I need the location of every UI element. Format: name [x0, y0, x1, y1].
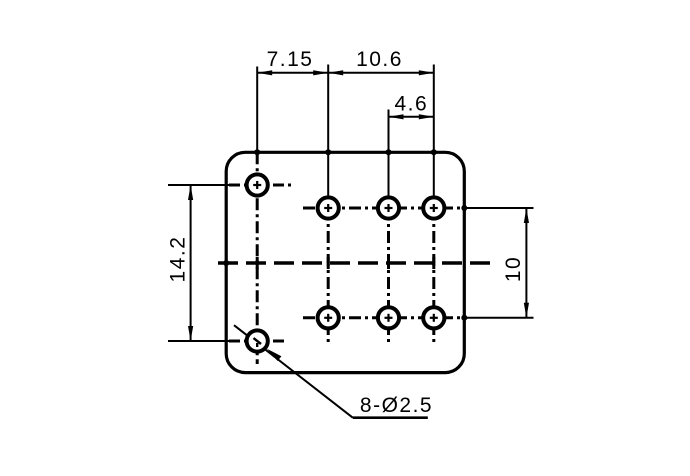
center mark hole P2 — [385, 204, 393, 212]
centerline vertical through mounting holes (x=257) — [256, 67, 258, 153]
junction dot right edge y=208 — [461, 205, 467, 211]
arrow 10.6 left — [328, 70, 343, 75]
junction cross mid-line x=257 — [256, 257, 259, 269]
extension line column x=388.5 (4.6 left) — [388, 110, 390, 209]
center mark hole P3 — [430, 204, 438, 212]
leader underline 8-2.5 — [353, 416, 428, 419]
body outline rounded rectangle — [226, 152, 464, 372]
junction dot right edge y=317.8 — [461, 315, 467, 321]
extension line right y=317.8 (10 bottom) — [464, 317, 533, 319]
dimension line 7.15 — [257, 72, 328, 74]
extension line left y=341 (14.2 bottom) — [168, 340, 229, 342]
arrow 7.15 right — [313, 70, 328, 75]
svg-text:10: 10 — [502, 256, 525, 282]
arrow 4.6 left — [389, 114, 404, 119]
pin hole P5 — [378, 307, 399, 328]
hidden centerline dashed mid body (y=263) — [218, 261, 490, 264]
leader arrow at hole H2 — [267, 349, 282, 361]
dimension line 14.2 — [190, 185, 192, 341]
svg-text:4.6: 4.6 — [394, 93, 428, 116]
svg-text:14.2: 14.2 — [167, 236, 190, 283]
junction dot top edge x=433.8 — [431, 149, 437, 155]
dimension line 10 — [525, 208, 527, 318]
junction dot top edge x=328 — [325, 149, 331, 155]
center mark hole P4 — [324, 314, 332, 322]
junction dot top edge x=257 — [254, 149, 260, 155]
mounting hole H1 top-left — [247, 174, 268, 195]
pin hole P2 — [378, 197, 399, 218]
centerline horizontal dash-dot pin row 2 (y=317.8) — [303, 316, 464, 319]
junction dot top edge x=388.5 — [386, 149, 392, 155]
leader line to bottom mounting hole — [234, 325, 353, 418]
arrow 14.2 top — [188, 185, 193, 200]
pin hole P6 — [423, 307, 444, 328]
extension line column x=433.8 (10.6/4.6 right) — [433, 65, 435, 209]
center mark hole H1 — [253, 181, 261, 189]
centerline horizontal dash-dot through top mounting hole — [229, 184, 291, 187]
center mark hole P6 — [430, 314, 438, 322]
mounting hole H2 bottom-left — [247, 330, 268, 351]
dimension line 4.6 — [389, 116, 434, 118]
extension line column x=328 (7.15/10.6) — [327, 65, 329, 209]
centerline vertical dash-dot x=433.8 between pin rows — [432, 208, 435, 346]
centerline vertical dash-dot x=257 inside body — [256, 152, 259, 364]
centerline vertical dash-dot x=388.5 between pin rows — [387, 208, 390, 346]
dimension line 10.6 — [328, 72, 434, 74]
junction cross mid-line x=433.8 — [432, 257, 435, 269]
pin hole P3 — [423, 197, 444, 218]
arrow 10 bottom — [524, 303, 529, 318]
pin hole P4 — [318, 307, 339, 328]
junction cross mid-line x=388.5 — [387, 257, 390, 269]
arrow 10 top — [524, 208, 529, 223]
junction dot left edge y=263 — [223, 260, 229, 266]
center mark hole P5 — [385, 314, 393, 322]
junction cross mid-line x=328 — [327, 257, 330, 269]
svg-text:7.15: 7.15 — [267, 48, 314, 71]
center mark hole P1 — [324, 204, 332, 212]
centerline horizontal dash-dot pin row 1 (y=208) — [303, 207, 464, 210]
arrow 14.2 bottom — [188, 326, 193, 341]
pin hole P1 — [318, 197, 339, 218]
extension line left y=185 (14.2 top) — [168, 184, 229, 186]
arrow 4.6 right — [419, 114, 434, 119]
svg-text:8-Ø2.5: 8-Ø2.5 — [360, 394, 433, 417]
center mark hole H2 — [254, 338, 262, 347]
extension line right y=208 (10 top) — [464, 207, 533, 209]
arrow 10.6 right — [419, 70, 434, 75]
arrow 7.15 left — [257, 70, 272, 75]
svg-text:10.6: 10.6 — [356, 48, 403, 71]
centerline horizontal dash-dot through bottom mounting hole — [229, 340, 286, 343]
centerline vertical dash-dot x=328 between pin rows — [327, 208, 330, 346]
